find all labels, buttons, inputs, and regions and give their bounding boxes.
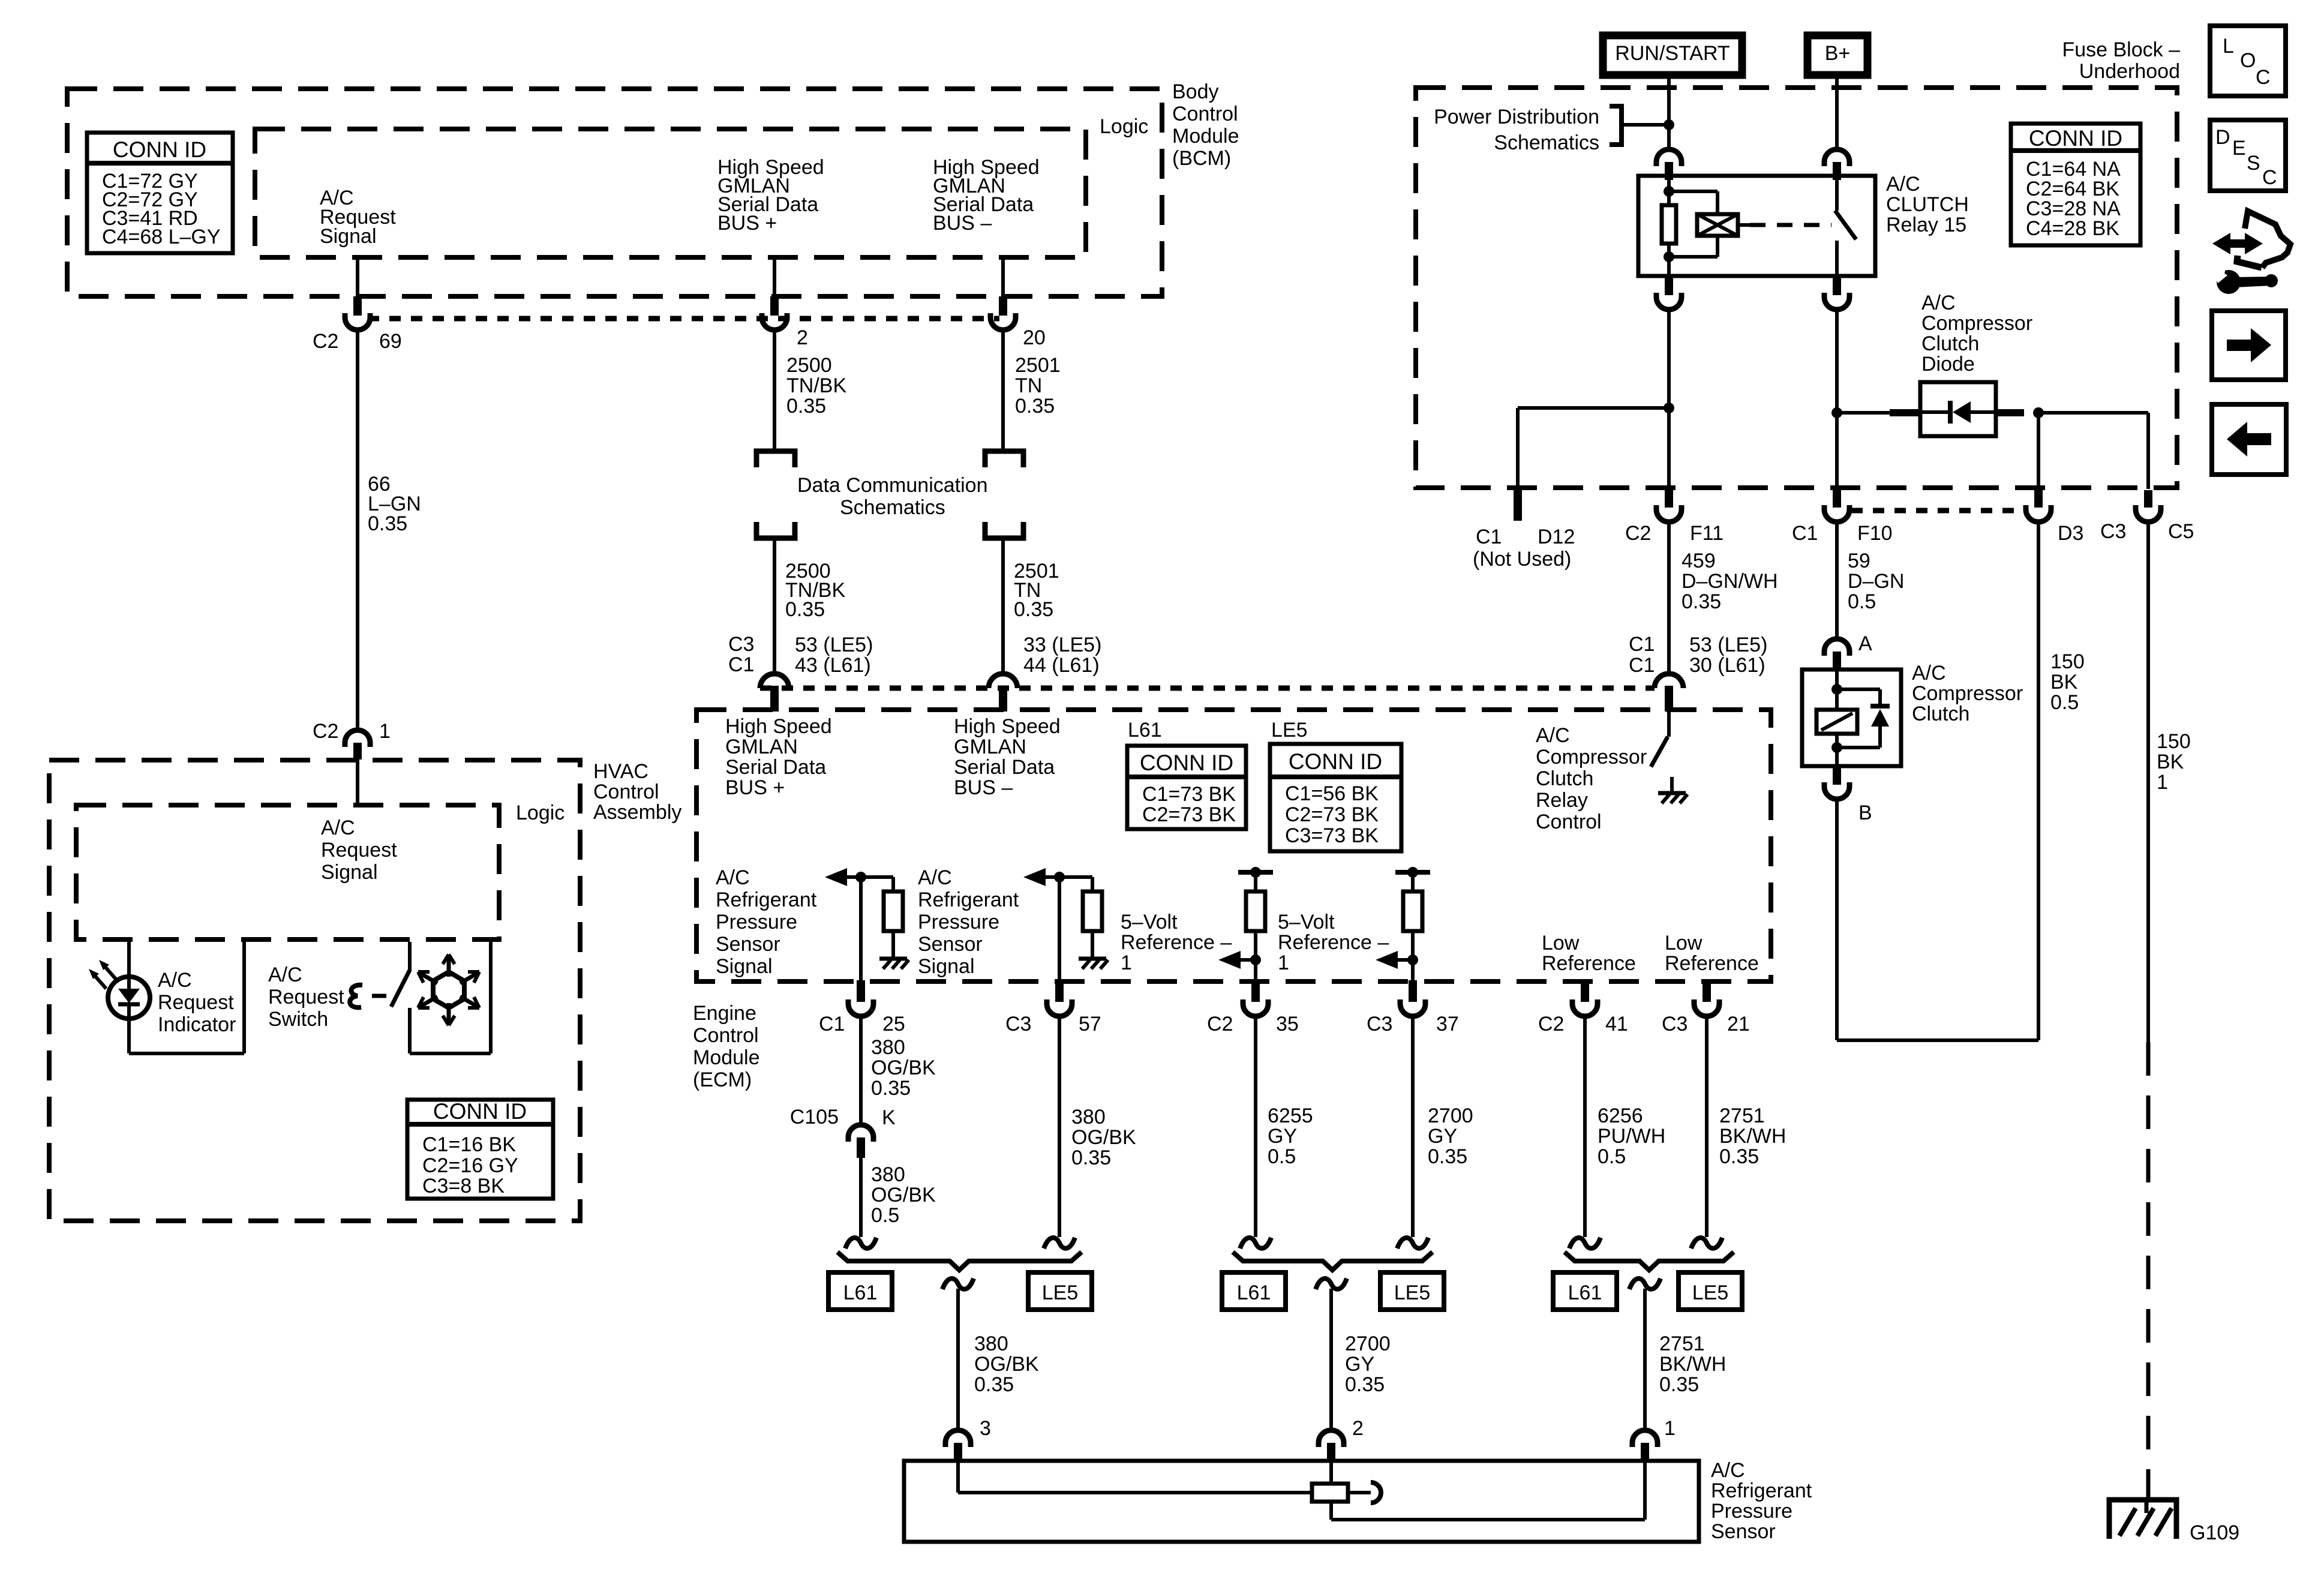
B+ box (1807, 35, 1867, 75)
svg-text:Reference: Reference (1665, 952, 1759, 975)
ECM pin C1 25 connector (857, 980, 865, 1002)
junction dot diode right (2033, 407, 2044, 418)
svg-text:High Speed: High Speed (725, 715, 832, 738)
svg-text:Assembly: Assembly (593, 801, 681, 824)
ECM internal rail bar pin 37 (1395, 870, 1430, 875)
pigtail pin35 wire (1240, 1238, 1271, 1248)
svg-text:30 (L61): 30 (L61) (1689, 654, 1765, 677)
svg-text:459: 459 (1682, 550, 1716, 572)
clutch coil wire bottom (1835, 734, 1839, 766)
wire BUS+ (BCM to connector) (773, 257, 776, 298)
svg-text:D–GN: D–GN (1848, 570, 1904, 593)
wire 2501 TN lower (1001, 538, 1005, 674)
svg-text:Compressor: Compressor (1921, 312, 2032, 335)
svg-text:K: K (882, 1106, 896, 1129)
brace group 1 (837, 1252, 1082, 1270)
wire 380 OG/BK 0.5 (859, 1158, 863, 1237)
svg-text:Module: Module (1172, 125, 1239, 148)
svg-text:LE5: LE5 (1271, 719, 1308, 742)
ECM internal resistor branch pin 57 (1059, 875, 1092, 879)
ground G109 (2109, 1500, 2176, 1539)
connector BUS- to ECM (989, 674, 1017, 688)
svg-text:2700: 2700 (1428, 1104, 1473, 1127)
switch box bottom/right (410, 1052, 491, 1055)
pigtail pin37 wire (1397, 1238, 1428, 1248)
svg-text:C3: C3 (1662, 1013, 1688, 1035)
svg-text:0.35: 0.35 (974, 1373, 1014, 1396)
diode symbol (1948, 401, 1953, 424)
LE5 box group2 (1380, 1272, 1444, 1310)
svg-text:CONN ID: CONN ID (433, 1099, 527, 1124)
svg-text:GY: GY (1345, 1353, 1374, 1376)
ECM internal wire pin 25 (859, 877, 863, 981)
svg-text:C4=68 L–GY: C4=68 L–GY (102, 226, 221, 248)
relay control switch wire (1667, 712, 1671, 737)
svg-text:C1: C1 (1792, 522, 1818, 545)
Engine Control Module (ECM) box (696, 710, 1771, 981)
wire BUS- to data comm bracket (1001, 330, 1005, 451)
svg-text:380: 380 (974, 1332, 1008, 1355)
svg-text:C2: C2 (313, 720, 338, 743)
svg-text:LE5: LE5 (1692, 1281, 1729, 1304)
wire BUS- (BCM to connector) (1001, 257, 1005, 298)
svg-text:2: 2 (797, 326, 808, 349)
svg-text:Refrigerant: Refrigerant (1711, 1479, 1812, 1502)
data comm bracket bottom (BUS+) (756, 522, 795, 538)
svg-text:L61: L61 (843, 1281, 878, 1304)
wire 380 OG/BK 0.35 (pin 25) (859, 1016, 863, 1125)
ECM internal rail bar pin 35 (1238, 870, 1273, 875)
svg-text:6255: 6255 (1268, 1104, 1313, 1127)
HVAC Control Assembly box (49, 760, 580, 1221)
svg-text:C2: C2 (1538, 1013, 1564, 1035)
pigtail pin41 wire (1569, 1238, 1601, 1248)
relay control ground stub (1670, 777, 1674, 793)
svg-text:Reference –: Reference – (1278, 931, 1389, 954)
ECM internal wire pin 37 (1411, 931, 1415, 981)
wire diode junction to C5 (2038, 411, 2148, 415)
ECM internal wire pin 35 (1254, 931, 1257, 981)
svg-text:0.35: 0.35 (1015, 395, 1055, 418)
svg-text:A/C: A/C (1886, 173, 1920, 196)
BCM CONN ID table (87, 133, 233, 253)
ECM internal resistor branch pin 25 (861, 875, 893, 879)
wire junction to D12 (1518, 406, 1669, 410)
svg-text:(Not Used): (Not Used) (1473, 548, 1571, 571)
svg-text:C2=73 BK: C2=73 BK (1285, 803, 1379, 826)
relay resistor bottom wire (1667, 244, 1671, 277)
wire pin 37 down (1411, 1016, 1415, 1237)
svg-text:Clutch: Clutch (1536, 767, 1593, 790)
svg-text:Refrigerant: Refrigerant (716, 888, 817, 911)
svg-text:0.5: 0.5 (1848, 590, 1876, 613)
svg-text:2751: 2751 (1719, 1104, 1765, 1127)
svg-text:C3: C3 (728, 633, 754, 656)
data comm bracket top (BUS-) (985, 451, 1023, 467)
svg-text:21: 21 (1727, 1013, 1750, 1035)
svg-text:C3: C3 (1367, 1013, 1392, 1035)
svg-text:CONN ID: CONN ID (113, 137, 206, 162)
svg-text:44 (L61): 44 (L61) (1023, 654, 1100, 677)
svg-text:C105: C105 (790, 1106, 839, 1128)
svg-text:C1: C1 (1476, 526, 1502, 548)
fuse CONN ID table (2011, 124, 2140, 245)
svg-text:1: 1 (1121, 951, 1132, 974)
wire RUN/START down (1667, 75, 1671, 151)
diode stub left (1890, 409, 1920, 416)
BCM Logic box (255, 129, 1086, 257)
svg-text:BK: BK (2050, 671, 2078, 694)
svg-text:TN/BK: TN/BK (786, 374, 846, 397)
svg-text:Request: Request (268, 986, 344, 1008)
svg-text:C1: C1 (728, 653, 754, 676)
ECM internal arrow pin 25 (825, 868, 847, 886)
svg-text:Signal: Signal (918, 955, 975, 978)
svg-text:Pressure: Pressure (918, 911, 999, 933)
svg-text:E: E (2232, 137, 2246, 160)
A/C CLUTCH Relay 15 box (1638, 176, 1875, 276)
svg-text:BUS +: BUS + (717, 212, 777, 235)
svg-text:Control: Control (693, 1024, 759, 1047)
ECM internal wire pin 57 (1058, 877, 1061, 981)
svg-text:CONN ID: CONN ID (1289, 749, 1382, 774)
svg-text:Reference –: Reference – (1121, 931, 1232, 954)
connector C2 pin 1 (HVAC) (345, 730, 370, 747)
ECM internal resistor-to-ground wire pin 25 (891, 931, 895, 959)
svg-text:C3=73 BK: C3=73 BK (1285, 824, 1379, 847)
HVAC CONN ID table (407, 1100, 553, 1199)
wire 150 BK 1 (dashed part) (2146, 1042, 2151, 1500)
wire relay to diode junction (1835, 310, 1839, 489)
LOC icon (2210, 26, 2286, 96)
svg-text:LE5: LE5 (1042, 1281, 1079, 1304)
svg-text:Clutch: Clutch (1912, 703, 1969, 725)
svg-text:Schematics: Schematics (840, 496, 945, 519)
svg-text:Power Distribution: Power Distribution (1434, 106, 1599, 128)
pigtail group2 center (1316, 1278, 1347, 1289)
svg-text:CONN ID: CONN ID (2029, 126, 2122, 151)
clutch coil (1816, 710, 1857, 734)
svg-text:C3=8 BK: C3=8 BK (422, 1175, 505, 1197)
svg-text:2500: 2500 (786, 354, 832, 377)
svg-text:OG/BK: OG/BK (974, 1353, 1039, 1376)
svg-text:Request: Request (321, 839, 397, 861)
sensor internal wire pin2 (1329, 1462, 1333, 1484)
relay resistor (1662, 205, 1676, 244)
ECM pin C3 37 connector (1409, 980, 1417, 1002)
svg-text:2751: 2751 (1659, 1332, 1705, 1355)
svg-text:20: 20 (1023, 326, 1046, 349)
svg-text:C1=56 BK: C1=56 BK (1285, 782, 1379, 805)
L61 box group1 (828, 1272, 892, 1310)
switch blade (HVAC) (391, 970, 410, 1007)
wire relay to F11 junction (1667, 310, 1671, 489)
svg-text:CONN ID: CONN ID (1140, 751, 1233, 775)
svg-text:B+: B+ (1825, 42, 1851, 65)
svg-text:0.35: 0.35 (1719, 1145, 1759, 1168)
ECM internal arrow pin 57 (1023, 868, 1046, 886)
svg-text:43 (L61): 43 (L61) (795, 654, 871, 677)
wire B+ down (1835, 75, 1839, 151)
pigtail group1 center (942, 1278, 974, 1289)
connector C2 pin 2 (770, 296, 779, 316)
svg-text:A/C: A/C (321, 816, 355, 839)
svg-text:Signal: Signal (321, 861, 378, 884)
svg-text:A: A (1858, 632, 1872, 655)
svg-text:0.35: 0.35 (1428, 1145, 1467, 1168)
LE5 box group1 (1028, 1272, 1092, 1310)
data comm bracket bottom (BUS-) (985, 522, 1023, 538)
svg-text:D–GN/WH: D–GN/WH (1682, 570, 1778, 593)
terminal D12 (not used) (1514, 490, 1522, 521)
ECM internal junction pin 57 (1054, 872, 1065, 882)
svg-text:A/C: A/C (716, 866, 750, 889)
wire bracket to RUN/START wire (1622, 123, 1669, 127)
svg-text:HVAC: HVAC (593, 760, 648, 783)
wire junction to diode (1837, 411, 1891, 415)
ECM internal resistor pin 35 (1246, 891, 1265, 931)
svg-text:C2: C2 (1207, 1013, 1233, 1035)
ECM internal ground pin 57 (1079, 957, 1106, 961)
svg-text:A/C: A/C (158, 969, 192, 992)
svg-text:PU/WH: PU/WH (1598, 1125, 1665, 1148)
svg-text:0.5: 0.5 (1268, 1145, 1296, 1168)
left arrow icon (2212, 404, 2286, 475)
svg-text:53 (LE5): 53 (LE5) (795, 634, 873, 656)
ECM internal junction pin 25 (855, 872, 866, 882)
data comm bracket top (BUS+) (756, 451, 795, 467)
svg-text:BUS +: BUS + (725, 776, 785, 799)
svg-text:(BCM): (BCM) (1172, 147, 1231, 170)
relay control ground (1658, 791, 1686, 795)
hand-wrench icon (2212, 233, 2263, 254)
ECM internal resistor pin 37 (1403, 891, 1422, 931)
svg-text:0.35: 0.35 (786, 395, 826, 418)
svg-text:Sensor: Sensor (918, 933, 983, 956)
connector C1/C1 relay control (1655, 674, 1683, 688)
A/C Compressor Clutch Diode box (1920, 382, 1996, 436)
relay out left connector (1665, 277, 1673, 295)
svg-text:Diode: Diode (1921, 353, 1975, 376)
svg-text:380: 380 (871, 1163, 905, 1186)
ECM internal ground pin 25 (879, 957, 907, 961)
ECM internal stub pin 37 (1411, 872, 1415, 891)
ECM internal resistor pin 25 (884, 891, 903, 931)
svg-text:69: 69 (379, 330, 402, 353)
wire pin 57 down (1058, 1016, 1061, 1237)
svg-text:A/C: A/C (1912, 662, 1946, 685)
svg-text:C1: C1 (1629, 654, 1655, 677)
svg-text:Pressure: Pressure (716, 911, 797, 933)
svg-text:35: 35 (1276, 1013, 1299, 1035)
sensor element (1312, 1484, 1348, 1502)
svg-text:Control: Control (1536, 810, 1602, 833)
svg-text:A/C: A/C (1711, 1459, 1745, 1482)
svg-text:D: D (2215, 126, 2230, 149)
svg-text:2: 2 (1352, 1417, 1364, 1440)
A/C Compressor Clutch box (1802, 670, 1901, 766)
connector D3 (2034, 490, 2043, 508)
svg-text:41: 41 (1605, 1013, 1628, 1035)
svg-text:C2=73 BK: C2=73 BK (1142, 803, 1236, 826)
svg-text:C1: C1 (819, 1013, 845, 1035)
svg-text:33 (LE5): 33 (LE5) (1023, 634, 1101, 656)
relay top junction dot (1664, 186, 1674, 197)
svg-text:Low: Low (1542, 932, 1580, 954)
wire 2751 BK/WH 0.35 to sensor (1643, 1289, 1647, 1430)
junction dot power distribution (1664, 119, 1674, 130)
svg-text:C5: C5 (2168, 520, 2194, 543)
sensor case hook (1348, 1491, 1371, 1494)
L61 box group2 (1222, 1272, 1286, 1310)
svg-text:Sensor: Sensor (1711, 1520, 1776, 1543)
connector B (compressor clutch) (1833, 766, 1841, 785)
wire 459 D-GN/WH (1667, 522, 1671, 674)
svg-text:BK/WH: BK/WH (1659, 1353, 1726, 1376)
svg-text:Indicator: Indicator (158, 1013, 236, 1036)
svg-text:1: 1 (379, 720, 391, 743)
snowflake (433, 972, 464, 1008)
svg-text:L: L (2223, 35, 2234, 58)
svg-text:BUS –: BUS – (933, 212, 992, 235)
LED feedback box (127, 1019, 131, 1053)
right arrow icon (2212, 311, 2286, 380)
sensor internal wire pin1 (1643, 1462, 1647, 1520)
A/C Refrigerant Pressure Sensor box (904, 1461, 1699, 1542)
svg-text:0.35: 0.35 (1659, 1373, 1699, 1396)
svg-text:25: 25 (882, 1013, 905, 1035)
svg-text:F10: F10 (1857, 522, 1893, 545)
clutch diode branch (1837, 688, 1880, 691)
svg-text:0.5: 0.5 (2050, 691, 2079, 714)
junction dot diode left (1831, 407, 1842, 418)
clutch bottom junction dot (1831, 742, 1842, 753)
svg-text:0.35: 0.35 (1014, 598, 1053, 621)
relay bottom junction dot (1664, 251, 1674, 262)
relay switch blade (1835, 211, 1856, 239)
svg-text:0.5: 0.5 (1598, 1145, 1626, 1168)
svg-text:5–Volt: 5–Volt (1278, 911, 1335, 933)
svg-text:Refrigerant: Refrigerant (918, 888, 1019, 911)
svg-text:(ECM): (ECM) (693, 1068, 752, 1091)
svg-text:380: 380 (871, 1036, 905, 1059)
ECM pin C3 21 connector (1703, 980, 1711, 1002)
connector C5 (2144, 490, 2152, 508)
svg-text:D3: D3 (2058, 522, 2083, 545)
connector B+ into relay (1824, 149, 1849, 166)
svg-text:C2: C2 (313, 330, 338, 353)
svg-text:Sensor: Sensor (716, 933, 780, 956)
svg-text:Control: Control (1172, 103, 1238, 125)
svg-text:Compressor: Compressor (1536, 746, 1647, 769)
svg-text:0.35: 0.35 (368, 512, 407, 535)
svg-text:LE5: LE5 (1394, 1281, 1431, 1304)
wire diode junction to D3 (2037, 413, 2040, 489)
svg-text:0.5: 0.5 (871, 1204, 899, 1227)
connector C105 K (848, 1125, 873, 1142)
svg-text:A/C: A/C (1536, 724, 1570, 747)
connector RUN/START into relay (1656, 149, 1682, 166)
relay coil-side wire top (1667, 180, 1671, 205)
wire into HVAC logic (356, 760, 359, 805)
svg-text:C: C (2256, 66, 2271, 89)
junction dot F11/D12 (1664, 403, 1674, 413)
svg-text:150: 150 (2157, 730, 2191, 753)
svg-text:L61: L61 (1568, 1281, 1602, 1304)
wire A/C request signal (BCM logic to connector) (356, 257, 359, 298)
svg-text:Logic: Logic (516, 801, 565, 824)
svg-text:1: 1 (1278, 951, 1289, 974)
relay coil (1697, 214, 1738, 236)
svg-text:Schematics: Schematics (1494, 131, 1599, 154)
wire pin 35 down (1254, 1016, 1257, 1237)
wire 2700 GY 0.35 to sensor (1329, 1289, 1333, 1430)
brace group 3 (1565, 1252, 1734, 1270)
svg-text:0.35: 0.35 (785, 598, 825, 621)
connector C1 F10 (1833, 490, 1841, 508)
clutch top junction dot (1831, 684, 1842, 695)
svg-text:A/C: A/C (1921, 292, 1956, 314)
ECM pin C2 35 connector (1251, 980, 1260, 1002)
sensor pin 2 connector (1319, 1430, 1344, 1447)
svg-text:0.35: 0.35 (1345, 1373, 1385, 1396)
svg-text:Fuse Block –: Fuse Block – (2062, 38, 2180, 61)
pigtail group3 center (1629, 1278, 1661, 1289)
connector C2 pin 20 (999, 296, 1007, 316)
svg-text:G109: G109 (2190, 1521, 2239, 1544)
relay actuator dashed line (1738, 223, 1750, 227)
svg-text:C1=73 BK: C1=73 BK (1142, 783, 1236, 806)
pigtail pin21 wire (1691, 1238, 1722, 1248)
svg-text:Relay 15: Relay 15 (1886, 214, 1966, 236)
wire pin 41 down (1583, 1016, 1587, 1237)
svg-text:Low: Low (1665, 932, 1703, 954)
svg-text:C2: C2 (1625, 522, 1651, 545)
svg-text:GMLAN: GMLAN (954, 736, 1026, 758)
svg-text:0.35: 0.35 (1682, 590, 1721, 613)
svg-text:Engine: Engine (693, 1002, 756, 1025)
LED arrows (103, 965, 116, 980)
svg-text:Relay: Relay (1536, 789, 1588, 812)
svg-text:Pressure: Pressure (1711, 1500, 1792, 1523)
svg-text:Underhood: Underhood (2079, 60, 2180, 83)
svg-text:L61: L61 (1237, 1281, 1271, 1304)
Fuse Block - Underhood box (1416, 88, 2177, 488)
svg-text:C1: C1 (1629, 633, 1655, 656)
wire BUS+ to data comm bracket (773, 330, 776, 451)
svg-text:CLUTCH: CLUTCH (1886, 193, 1969, 216)
brace group 2 (1233, 1252, 1433, 1270)
svg-text:380: 380 (1071, 1106, 1106, 1128)
svg-text:0.35: 0.35 (871, 1077, 911, 1100)
svg-text:5–Volt: 5–Volt (1121, 911, 1178, 933)
switch pigtail (350, 985, 362, 1007)
A/C request indicator LED (108, 977, 150, 1019)
connector C2 pin 69 (353, 296, 362, 316)
wire 150 BK 0.5 (1835, 799, 1839, 1040)
svg-text:Reference: Reference (1542, 952, 1636, 975)
relay out right connector (1833, 277, 1841, 295)
svg-text:57: 57 (1079, 1013, 1101, 1035)
svg-text:3: 3 (980, 1417, 991, 1440)
wire pin 21 down (1705, 1016, 1709, 1237)
sensor pin 1 connector (1632, 1430, 1658, 1447)
relay switch contact (1835, 180, 1839, 211)
wire 66 L-GN (356, 330, 359, 731)
clutch coil wire top (1835, 671, 1839, 710)
L61 box group3 (1553, 1272, 1617, 1310)
switch box left edge (408, 942, 412, 971)
